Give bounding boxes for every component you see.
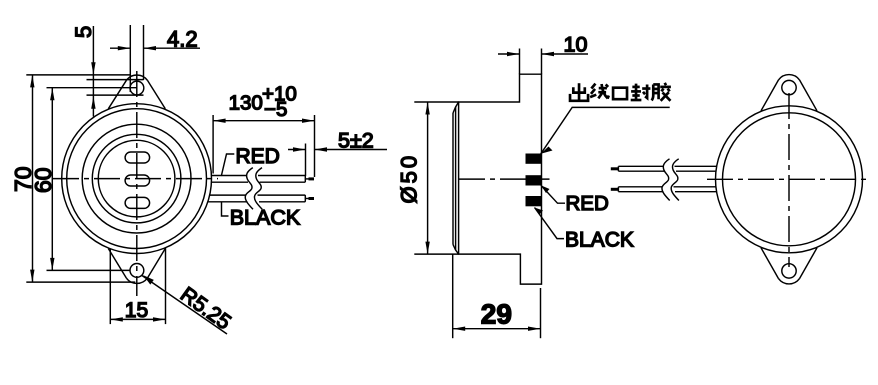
dim 10 left arrow (507, 52, 520, 56)
glyph 封 (631, 84, 651, 100)
dim 10 left line (498, 53, 520, 55)
dim 5±2 left line (288, 149, 306, 151)
svg-text:29: 29 (481, 299, 512, 330)
dim 60 arrow down (50, 258, 54, 271)
leader BLACK line (535, 208, 565, 239)
svg-text:−5: −5 (264, 98, 287, 121)
svg-text:BLACK: BLACK (230, 206, 301, 230)
back bottom ear right slant (800, 248, 818, 279)
buzzer rim circle 2 (67, 109, 207, 249)
dim 10 right line (542, 53, 589, 55)
dim 5 line (92, 26, 94, 117)
dim 70 line (32, 75, 34, 282)
back top ear hole (782, 80, 796, 94)
buzzer face circle 5 (98, 140, 175, 217)
back black wire end cap (617, 187, 619, 192)
dim 10 extension right (541, 49, 543, 75)
dim 4.2 arrow right (144, 46, 157, 50)
dim Ø50 line (427, 102, 429, 254)
dim 5 hole-top extension (87, 79, 144, 81)
leader glue note arrow (541, 147, 553, 154)
dim 70 extension line bottom (26, 281, 135, 283)
back red wire bottom line (618, 170, 716, 172)
dim 60 extension line top (47, 87, 137, 89)
red wire insulation end cap (304, 176, 306, 183)
dim 4.2 arrow left (118, 46, 131, 50)
glue note text 出线口封胶 (570, 83, 671, 101)
buzzer outer circle (62, 104, 212, 254)
black wire lead tip (309, 197, 315, 200)
black wire insulation top line (210, 194, 306, 196)
dim 70 arrow up (30, 75, 34, 88)
glyph 口 (613, 88, 627, 99)
dim Ø50 arrow down (425, 242, 429, 255)
dim 130 extension right (314, 115, 316, 177)
back horizontal centerline (707, 178, 871, 180)
dim 5±2 arrow left-pointing (315, 147, 328, 151)
dim 15 arrow left (110, 317, 123, 321)
back bottom ear arc (779, 279, 800, 284)
dim 15 extension left (109, 249, 111, 325)
front face chamfer top (453, 102, 459, 113)
dim 10 right arrow (542, 52, 555, 56)
back black wire bare lead (611, 188, 619, 191)
black wire bare lead (305, 198, 314, 200)
dim 4.2 extension right (143, 25, 145, 80)
leader R5.25 line (142, 275, 227, 334)
dim 60 extension line bottom (47, 269, 131, 271)
back bottom ear hole (782, 264, 796, 278)
dim 29 arrow right (528, 327, 541, 331)
leader BLACK arrow (535, 208, 544, 215)
leader RED line (541, 185, 565, 203)
dim 29 line (453, 328, 541, 330)
back red wire end cap (617, 166, 619, 171)
glyph 线 (590, 84, 609, 99)
dim Ø50 arrow up (425, 102, 429, 115)
front face line 2 (455, 107, 457, 250)
bottom ear left slant (108, 249, 126, 279)
dim 70 arrow down (30, 270, 34, 283)
front face line 1 (452, 113, 454, 245)
vertical centerline (136, 71, 138, 296)
sound slot bottom (125, 197, 150, 208)
buzzer face circle 4 (92, 134, 181, 223)
back outer circle (716, 106, 863, 253)
dim 15 extension right (165, 248, 167, 324)
body outline (459, 74, 542, 284)
svg-text:RED: RED (566, 192, 609, 215)
sound slot top (125, 152, 150, 163)
wire break squiggle left (245, 168, 253, 210)
svg-text:5±2: 5±2 (338, 129, 374, 153)
dim 29 arrow left (453, 327, 466, 331)
back wire break squiggle left (662, 159, 670, 201)
back inner circle (723, 113, 856, 246)
sealing glue block top (526, 154, 542, 164)
svg-text:5: 5 (71, 26, 96, 38)
red wire insulation bottom line (211, 181, 305, 183)
svg-text:15: 15 (125, 299, 148, 322)
dim 15 arrow right (153, 317, 166, 321)
dim 5 arrow up (below) (91, 96, 95, 109)
dim 4.2 line right part (144, 47, 201, 49)
red wire insulation top line (211, 175, 305, 177)
wire break squiggle right (254, 168, 262, 210)
dim 130 arrow right (302, 119, 315, 123)
sealing glue block bottom (526, 196, 542, 206)
back red wire top line (618, 165, 716, 167)
top ear hole (130, 81, 144, 95)
front face chamfer bottom (453, 245, 459, 255)
svg-text:Ø50: Ø50 (397, 153, 422, 204)
top mounting ear arc (126, 75, 147, 80)
back top ear left slant (761, 80, 779, 111)
label RED leader (221, 154, 234, 176)
dim Ø50 extension top (414, 101, 458, 103)
back top ear right slant (800, 80, 818, 111)
dim 60 arrow up (50, 88, 54, 101)
svg-text:4.2: 4.2 (167, 27, 198, 52)
bottom ear hole (130, 264, 144, 278)
dim Ø50 extension bottom (414, 253, 458, 255)
bottom ear right slant (147, 249, 165, 279)
dim 4.2 extension left (129, 25, 131, 92)
dim 4.2 line left part (110, 47, 130, 49)
dim 130 extension left (212, 115, 214, 174)
label BLACK leader (222, 202, 229, 216)
svg-text:BLACK: BLACK (565, 228, 634, 251)
svg-text:RED: RED (236, 145, 280, 168)
dim 130 line (213, 120, 314, 122)
sound slot middle (125, 175, 150, 186)
dim 5±2 extension (305, 144, 307, 177)
dim 15 line (110, 318, 165, 320)
dim 60 line (51, 88, 53, 271)
dim 29 extension right (540, 288, 542, 338)
svg-text:10: 10 (564, 33, 588, 57)
bottom mounting ear arc (126, 278, 147, 283)
red wire bare lead (305, 178, 314, 180)
back red wire bare lead (611, 167, 619, 170)
back vertical centerline (788, 93, 790, 267)
back top ear arc (779, 75, 800, 80)
dim 5±2 arrow right-pointing (293, 147, 306, 151)
back black wire bottom line (618, 191, 716, 193)
svg-text:60: 60 (30, 167, 56, 193)
glyph 胶 (652, 83, 671, 101)
dim 130 arrow left (213, 119, 226, 123)
buzzer face circle 3 (82, 124, 191, 233)
leader R5.25 arrow (143, 275, 154, 284)
black wire insulation end cap (304, 195, 306, 202)
dim 5±2 right line (315, 149, 388, 151)
horizontal centerline (53, 178, 218, 180)
glyph 出 (570, 83, 588, 101)
red wire lead tip (309, 177, 315, 180)
leader RED arrow (541, 185, 550, 193)
sealing glue block middle (526, 175, 542, 185)
side view centerline (459, 178, 550, 180)
dim 5 arrow down (above) (91, 62, 95, 74)
dim 10 extension left (519, 49, 521, 75)
back black wire top line (618, 186, 716, 188)
dim 29 extension left (452, 255, 454, 339)
top ear left slant (108, 80, 126, 109)
svg-text:R5.25: R5.25 (176, 283, 235, 334)
top ear right slant (147, 80, 165, 109)
dim 5 hole-bottom extension (87, 94, 144, 96)
back bottom ear left slant (761, 248, 779, 279)
black wire insulation bottom line (208, 201, 305, 203)
dim 70 extension line top (26, 74, 130, 76)
svg-text:130: 130 (229, 91, 263, 114)
back wire break squiggle right (671, 159, 679, 201)
leader glue note line (541, 107, 670, 153)
